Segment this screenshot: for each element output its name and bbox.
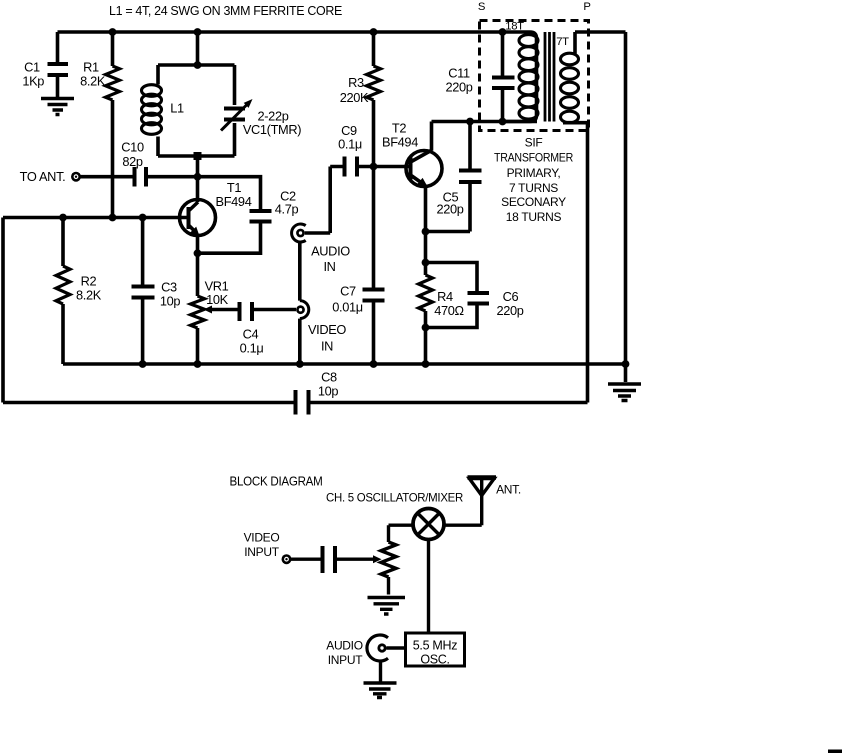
svg-text:8.2K: 8.2K [80, 74, 106, 89]
svg-text:220p: 220p [445, 80, 472, 95]
svg-text:7 TURNS: 7 TURNS [509, 181, 558, 195]
svg-text:0.1μ: 0.1μ [240, 341, 264, 356]
svg-text:5.5 MHz: 5.5 MHz [413, 639, 457, 653]
svg-text:C7: C7 [340, 284, 356, 299]
svg-text:C10: C10 [121, 140, 144, 155]
svg-text:VIDEO: VIDEO [308, 322, 346, 337]
svg-text:0.1μ: 0.1μ [338, 137, 362, 152]
svg-text:CH. 5 OSCILLATOR/MIXER: CH. 5 OSCILLATOR/MIXER [326, 491, 464, 505]
svg-text:C6: C6 [503, 289, 519, 304]
svg-text:ANT.: ANT. [496, 483, 521, 497]
svg-text:C11: C11 [448, 66, 470, 81]
svg-text:T1: T1 [227, 180, 241, 195]
svg-text:82p: 82p [122, 154, 143, 169]
svg-text:C4: C4 [243, 327, 259, 342]
svg-text:L1 = 4T, 24 SWG ON 3MM FERRITE: L1 = 4T, 24 SWG ON 3MM FERRITE CORE [109, 3, 343, 18]
svg-text:SECONARY: SECONARY [501, 195, 566, 209]
svg-text:4.7p: 4.7p [275, 202, 299, 217]
svg-text:OSC.: OSC. [420, 653, 449, 667]
svg-text:R3: R3 [348, 75, 364, 90]
svg-text:AUDIO: AUDIO [311, 244, 350, 259]
svg-text:C3: C3 [161, 280, 177, 295]
svg-text:C8: C8 [321, 370, 337, 385]
svg-text:VC1(TMR): VC1(TMR) [243, 122, 301, 137]
svg-text:220K: 220K [340, 90, 369, 105]
svg-text:R4: R4 [437, 289, 453, 304]
svg-text:BLOCK DIAGRAM: BLOCK DIAGRAM [230, 474, 323, 489]
svg-text:SIF: SIF [525, 136, 543, 150]
svg-text:BF494: BF494 [216, 194, 252, 209]
svg-text:INPUT: INPUT [244, 545, 279, 559]
svg-text:0.01μ: 0.01μ [332, 300, 363, 315]
svg-text:IN: IN [321, 339, 333, 354]
svg-text:7T: 7T [556, 36, 569, 48]
svg-text:L1: L1 [170, 101, 184, 116]
svg-text:PRIMARY,: PRIMARY, [507, 166, 561, 180]
svg-text:AUDIO: AUDIO [326, 639, 363, 653]
svg-text:8.2K: 8.2K [76, 288, 102, 303]
svg-text:R1: R1 [83, 60, 99, 75]
svg-text:470Ω: 470Ω [434, 303, 464, 318]
svg-text:C1: C1 [24, 60, 40, 75]
svg-text:VIDEO: VIDEO [244, 531, 280, 545]
svg-text:TO ANT.: TO ANT. [20, 169, 66, 184]
svg-text:10p: 10p [318, 384, 339, 399]
svg-text:220p: 220p [496, 303, 523, 318]
svg-text:1Kp: 1Kp [22, 74, 44, 89]
svg-text:P: P [583, 1, 590, 13]
svg-text:220p: 220p [436, 202, 463, 217]
svg-text:R2: R2 [81, 274, 97, 289]
svg-text:T2: T2 [392, 121, 406, 136]
svg-text:10p: 10p [160, 294, 181, 309]
svg-text:BF494: BF494 [382, 135, 418, 150]
svg-text:18 TURNS: 18 TURNS [506, 210, 562, 224]
svg-text:INPUT: INPUT [328, 653, 363, 667]
svg-text:18T: 18T [505, 21, 524, 33]
svg-text:TRANSFORMER: TRANSFORMER [494, 151, 574, 165]
svg-text:S: S [478, 1, 486, 13]
svg-text:10K: 10K [206, 292, 229, 307]
svg-text:IN: IN [323, 259, 335, 274]
